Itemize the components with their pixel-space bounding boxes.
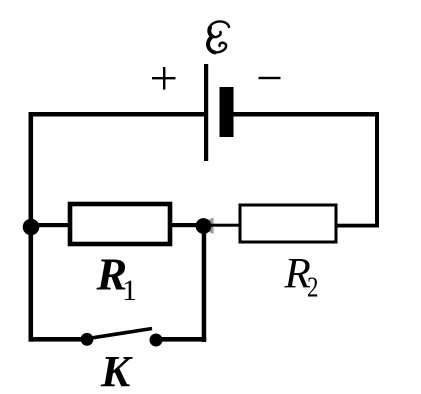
node A junction dot: [23, 219, 40, 236]
wire right rail vertical: [375, 112, 379, 227]
wire bottom-right segment: [155, 337, 206, 342]
label plus sign: [152, 67, 176, 90]
resistor R2 box: [240, 205, 336, 242]
label EMF script-E: [207, 21, 229, 52]
wire top-right (battery - terminal to right rail): [230, 112, 379, 117]
wire R1 right lead to node B: [170, 223, 204, 227]
wire left rail vertical: [29, 112, 34, 342]
wire node A to R1 left lead: [31, 223, 71, 227]
switch K right contact dot: [150, 334, 163, 347]
wire bottom-left segment: [29, 337, 89, 342]
svg-text:1: 1: [122, 274, 137, 307]
wire node B to R2 left lead: [208, 224, 242, 227]
svg-text:2: 2: [307, 272, 319, 304]
switch K left contact dot: [81, 333, 94, 346]
resistor R1 box: [70, 204, 170, 244]
wire middle vertical (node B down to switch branch): [202, 220, 207, 342]
svg-text:K: K: [100, 347, 133, 394]
label minus sign: [259, 77, 281, 79]
battery cell E: short thick negative plate: [220, 87, 234, 137]
switch K blade: [88, 329, 152, 339]
battery cell E: long positive plate: [204, 64, 208, 161]
wire R2 right lead to right rail: [336, 224, 379, 228]
node B junction dot: [196, 218, 212, 234]
current arrow (gray) at node B: [196, 218, 214, 235]
wire top-left (battery + terminal to left rail): [29, 112, 206, 117]
